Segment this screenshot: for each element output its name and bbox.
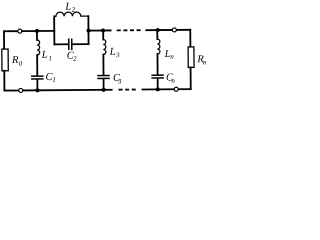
svg-text:0: 0 — [19, 60, 23, 68]
svg-text:2: 2 — [73, 55, 77, 63]
node junction dot tank output — [86, 29, 90, 33]
node junction dot top of branch L1C1 — [35, 29, 39, 33]
capacitor C1 — [32, 76, 43, 79]
svg-text:L: L — [109, 47, 116, 58]
wire bottom dashed continuation — [119, 89, 137, 91]
wire right vertical upper — [189, 30, 191, 47]
resistor R0 box — [2, 49, 9, 91]
svg-text:n: n — [203, 58, 207, 66]
node junction dot top of branch L3C3 — [101, 28, 105, 32]
wire bottom main run — [23, 89, 112, 92]
node junction dot bottom of branch LnCn — [156, 87, 160, 91]
inductor L1 coil — [37, 40, 40, 55]
wire branch1 vertical upper — [36, 31, 38, 40]
capacitor Cn — [152, 75, 163, 78]
output terminal bottom (open circle) — [174, 87, 178, 91]
svg-text:1: 1 — [49, 54, 53, 62]
wire top right solid run — [146, 29, 190, 31]
capacitor C2 plates — [69, 39, 72, 49]
inductor L3 coil — [103, 39, 106, 54]
wire branch2 vertical middle — [102, 55, 104, 75]
svg-text:1: 1 — [52, 76, 56, 84]
input terminal top (open circle) — [18, 29, 22, 33]
svg-text:3: 3 — [115, 51, 120, 59]
output terminal top (open circle) — [172, 28, 176, 32]
svg-text:L: L — [41, 50, 48, 61]
wire bottom-left horizontal to output terminal — [4, 89, 18, 91]
node junction dot top of branch LnCn — [156, 28, 160, 32]
wire branchN vertical upper — [156, 30, 158, 39]
capacitor C3 — [98, 76, 109, 79]
node junction dot bottom of branch L3C3 — [102, 88, 106, 92]
wire bottom right solid run — [142, 88, 190, 90]
wire branch2 vertical upper — [102, 31, 104, 40]
wire top dashed continuation — [117, 29, 141, 31]
input terminal bottom (open circle) — [19, 88, 23, 92]
wire branch1 vertical middle — [36, 55, 38, 75]
resistor Rn box — [188, 47, 194, 68]
wire branch2 vertical lower — [103, 79, 105, 90]
wire top-left horizontal from corner to input terminal — [4, 31, 18, 49]
wire branchN vertical lower — [157, 79, 159, 90]
svg-text:L: L — [64, 2, 71, 13]
wire top from tank to dashed break — [88, 29, 110, 31]
node junction dot bottom of branch L1C1 — [35, 88, 39, 92]
wire top from terminal to tank left edge — [22, 30, 54, 32]
tank bottom rail left part — [54, 43, 68, 45]
wire branch1 vertical lower — [36, 80, 38, 91]
svg-text:3: 3 — [117, 78, 122, 86]
tank bottom rail right part — [73, 43, 89, 45]
inductor Ln coil — [157, 39, 160, 54]
tank right edge — [87, 16, 89, 44]
tank L2C2 left edge — [53, 16, 55, 44]
wire branchN vertical middle — [156, 54, 158, 74]
svg-text:n: n — [170, 53, 174, 61]
svg-text:n: n — [171, 77, 175, 85]
inductor L2 coil on tank top rail — [54, 12, 88, 16]
svg-text:2: 2 — [72, 6, 76, 14]
wire right vertical lower — [190, 67, 192, 89]
